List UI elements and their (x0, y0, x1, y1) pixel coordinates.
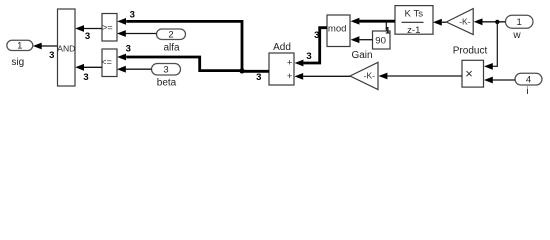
svg-text:90: 90 (375, 35, 386, 46)
svg-text:3: 3 (49, 50, 54, 61)
svg-text:1: 1 (385, 26, 390, 36)
svg-text:alfa: alfa (163, 42, 180, 53)
svg-text:w: w (512, 30, 521, 41)
svg-text:4: 4 (526, 75, 531, 86)
svg-text:Product: Product (453, 45, 488, 56)
svg-text:+: + (287, 58, 293, 69)
svg-text:3: 3 (256, 72, 261, 83)
svg-text:<=: <= (101, 57, 112, 67)
svg-text:1: 1 (517, 17, 522, 28)
svg-text:3: 3 (85, 31, 90, 42)
svg-text:Add: Add (273, 42, 291, 53)
svg-text:z-1: z-1 (407, 25, 420, 36)
svg-text:-K-: -K- (364, 71, 376, 81)
svg-text:3: 3 (126, 43, 131, 54)
svg-text:×: × (465, 66, 473, 81)
svg-text:3: 3 (130, 10, 135, 21)
svg-text:Gain: Gain (351, 50, 372, 61)
svg-text:beta: beta (157, 77, 177, 88)
svg-text:+: + (287, 71, 293, 82)
svg-text:>=: >= (102, 22, 113, 32)
svg-text:2: 2 (168, 30, 173, 41)
svg-text:-K-: -K- (459, 17, 471, 27)
svg-text:AND: AND (57, 44, 75, 54)
svg-text:3: 3 (314, 30, 319, 41)
svg-text:K Ts: K Ts (405, 8, 424, 19)
svg-text:mod: mod (328, 24, 347, 35)
svg-text:3: 3 (83, 72, 88, 83)
svg-text:3: 3 (306, 51, 311, 62)
svg-text:1: 1 (17, 41, 22, 52)
svg-text:3: 3 (163, 65, 168, 76)
svg-text:sig: sig (11, 57, 24, 68)
svg-text:i: i (526, 86, 528, 97)
